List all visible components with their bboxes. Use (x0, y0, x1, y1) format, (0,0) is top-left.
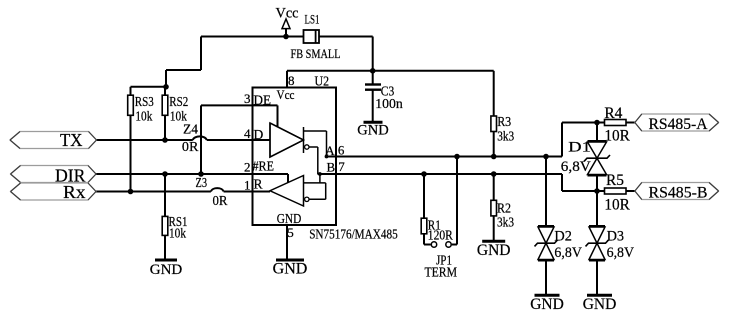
svg-text:3k3: 3k3 (497, 128, 514, 143)
svg-text:R3: R3 (497, 114, 511, 129)
svg-text:2: 2 (244, 160, 251, 175)
svg-text:GND: GND (357, 122, 388, 138)
svg-text:#RE: #RE (253, 159, 275, 174)
svg-text:Z3: Z3 (196, 175, 208, 190)
svg-text:FB SMALL: FB SMALL (291, 46, 341, 61)
svg-text:R2: R2 (497, 200, 511, 215)
svg-text:120R: 120R (428, 228, 453, 243)
svg-text:D: D (254, 127, 264, 142)
svg-text:Vcc: Vcc (277, 87, 295, 102)
svg-text:10k: 10k (135, 108, 152, 123)
svg-text:R5: R5 (606, 172, 624, 189)
svg-text:R4: R4 (604, 105, 622, 122)
svg-text:5: 5 (287, 225, 294, 240)
svg-text:R: R (254, 177, 263, 192)
svg-text:LS1: LS1 (305, 12, 320, 27)
svg-text:6,8V: 6,8V (561, 159, 591, 175)
svg-text:3: 3 (244, 91, 251, 106)
svg-text:0R: 0R (213, 193, 228, 208)
svg-text:10R: 10R (604, 196, 630, 213)
svg-text:7: 7 (338, 159, 345, 174)
svg-text:GND: GND (583, 296, 617, 313)
svg-text:GND: GND (530, 296, 564, 313)
svg-text:GND: GND (150, 262, 183, 278)
svg-text:RS2: RS2 (169, 94, 188, 109)
svg-text:U2: U2 (315, 74, 330, 89)
svg-text:D3: D3 (607, 229, 625, 245)
svg-text:100n: 100n (375, 96, 403, 111)
svg-text:Vcc: Vcc (276, 5, 299, 21)
svg-text:Z4: Z4 (183, 121, 198, 136)
svg-text:SN75176/MAX485: SN75176/MAX485 (309, 226, 398, 241)
svg-text:6,8V: 6,8V (607, 245, 635, 261)
svg-text:D1: D1 (568, 140, 591, 156)
svg-text:Rx: Rx (63, 182, 86, 202)
svg-text:D2: D2 (554, 229, 572, 245)
svg-text:4: 4 (244, 126, 251, 141)
svg-text:3k3: 3k3 (497, 215, 514, 230)
svg-text:1: 1 (244, 178, 251, 193)
svg-text:A: A (325, 143, 335, 158)
svg-text:0R: 0R (182, 139, 199, 154)
svg-text:10R: 10R (604, 127, 630, 144)
svg-text:6: 6 (338, 143, 345, 158)
svg-text:RS485-B: RS485-B (649, 185, 708, 202)
svg-text:RS485-A: RS485-A (649, 116, 708, 133)
svg-text:DE: DE (254, 93, 272, 108)
svg-text:6,8V: 6,8V (554, 245, 582, 261)
svg-text:GND: GND (273, 261, 308, 278)
svg-text:10k: 10k (169, 226, 186, 241)
svg-text:RS3: RS3 (135, 94, 154, 109)
svg-text:TERM: TERM (425, 265, 458, 280)
svg-text:TX: TX (60, 130, 83, 150)
svg-text:8: 8 (288, 73, 295, 88)
svg-text:B: B (327, 159, 336, 174)
svg-text:GND: GND (477, 242, 511, 259)
